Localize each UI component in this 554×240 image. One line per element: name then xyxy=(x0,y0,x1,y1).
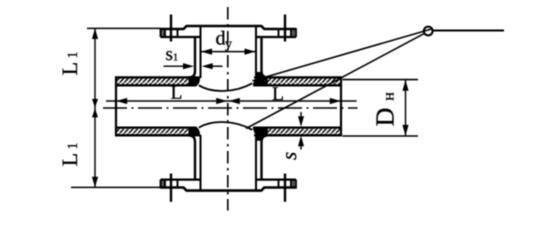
svg-text:L: L xyxy=(170,83,182,104)
bottom flange left cell lines xyxy=(164,180,166,188)
dimension L1 bottom arrows xyxy=(92,108,98,117)
top flange underside right xyxy=(256,36,296,38)
horizontal centerline xyxy=(103,107,358,109)
top junction left fillet blob xyxy=(189,76,201,86)
bottom branch inner wall right xyxy=(255,137,257,190)
bottom branch inner wall left xyxy=(200,135,202,190)
dimension Dn arrows xyxy=(402,80,408,91)
dimension dy arrows xyxy=(201,49,212,55)
leader balloon circle xyxy=(424,27,433,36)
bottom junction right fillet blob xyxy=(253,127,268,141)
bottom left bolt xyxy=(170,174,172,202)
pipe left end face xyxy=(115,77,117,137)
svg-text:s: s xyxy=(277,152,301,160)
extension line bottom left xyxy=(71,186,161,188)
top branch outer wall left xyxy=(189,37,195,77)
bottom junction intersection curve xyxy=(199,122,252,130)
vertical centerline xyxy=(227,7,229,211)
bottom flange topside left xyxy=(161,179,201,181)
pipe right end face xyxy=(340,77,342,137)
bottom flange left bolt cell hatch xyxy=(161,180,166,187)
top branch inner wall right xyxy=(255,27,257,76)
top flange right cell lines xyxy=(278,29,280,37)
pipe bottom wall left section xyxy=(115,128,197,136)
dimension L1 top line xyxy=(94,28,96,108)
dimension L1 bottom line xyxy=(94,108,96,187)
svg-text:у: у xyxy=(225,37,232,52)
dimension L arrows left pair xyxy=(116,98,127,104)
leader horizontal shelf xyxy=(433,30,505,32)
dimension dy line xyxy=(201,51,257,53)
bottom flange topside right xyxy=(256,179,296,181)
Dn extension top xyxy=(343,79,419,81)
top junction intersection curve xyxy=(199,83,252,91)
bottom flange outer profile xyxy=(161,188,297,191)
top flange right bolt cell hatch xyxy=(291,30,296,37)
bottom flange left edge xyxy=(160,180,162,189)
top flange underside left xyxy=(161,36,201,38)
bottom junction left fillet blob xyxy=(189,127,201,137)
top left bolt xyxy=(170,15,172,42)
extension line top left xyxy=(87,27,161,29)
bottom flange right bolt cell hatch xyxy=(291,180,296,187)
top right bolt xyxy=(284,15,286,42)
pipe top wall left section xyxy=(115,77,197,85)
pipe top wall right section xyxy=(254,77,342,85)
bottom branch outer wall left xyxy=(189,135,195,179)
dimension s1 right line with arrow xyxy=(210,65,223,67)
Dn extension bottom xyxy=(343,135,419,137)
leader line A from top junction xyxy=(252,29,432,81)
top junction right fillet blob xyxy=(253,72,268,86)
dimension s1 left line with arrow xyxy=(164,65,187,67)
dimension s lower tail with arrow xyxy=(300,142,302,150)
dimension L1 top arrows xyxy=(92,28,98,39)
dimension s upper tail with arrow xyxy=(300,112,302,120)
svg-text:d: d xyxy=(215,28,225,50)
top flange right edge xyxy=(295,28,297,37)
svg-text:L: L xyxy=(272,84,284,105)
top flange left bolt cell hatch xyxy=(161,30,166,37)
top flange left cell lines xyxy=(164,29,166,37)
bottom branch outer wall right xyxy=(262,135,268,179)
bottom right bolt xyxy=(284,174,286,202)
leader line B from bottom junction xyxy=(246,34,424,129)
dimension Dn line xyxy=(405,80,407,136)
dimension L line xyxy=(106,100,357,102)
top flange left edge xyxy=(160,28,162,37)
top flange outer profile xyxy=(161,26,297,29)
top branch inner wall left xyxy=(200,27,202,78)
dimension L arrows right pair xyxy=(229,98,240,104)
bottom flange right cell lines xyxy=(278,180,280,188)
pipe bottom wall right section xyxy=(254,128,342,136)
top branch outer wall right xyxy=(262,37,268,77)
bottom flange right edge xyxy=(295,180,297,189)
